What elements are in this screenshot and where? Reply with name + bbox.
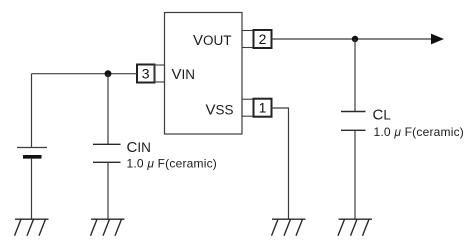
svg-text:3: 3 bbox=[142, 66, 150, 82]
pin number 2 bbox=[254, 30, 272, 48]
pin label VIN bbox=[172, 66, 196, 83]
op-amp U1 (regulator IC body) bbox=[165, 13, 243, 135]
svg-text:1.0 μ F(ceramic): 1.0 μ F(ceramic) bbox=[374, 125, 464, 139]
svg-text:VOUT: VOUT bbox=[193, 32, 232, 49]
capacitor CL bbox=[341, 112, 366, 131]
capacitor CIN bbox=[93, 144, 121, 162]
svg-text:VIN: VIN bbox=[172, 66, 196, 83]
svg-text:CL: CL bbox=[373, 107, 392, 124]
label CL bbox=[373, 107, 392, 124]
wire CIN top bbox=[107, 74, 109, 145]
wire CIN bottom bbox=[107, 162, 109, 219]
pin 3 stub bbox=[155, 65, 165, 82]
pin 2 stub bbox=[242, 31, 254, 48]
svg-text:1: 1 bbox=[259, 100, 267, 116]
pin 1 stub bbox=[242, 99, 254, 116]
pin number 1 bbox=[254, 99, 272, 117]
wire VOUT net (pin 2 to arrow) bbox=[272, 38, 433, 40]
pin label VSS bbox=[206, 102, 234, 119]
ground (CIN) bbox=[91, 219, 125, 236]
node junction VIN/CIN bbox=[105, 70, 112, 77]
wire battery positive bbox=[31, 74, 33, 148]
label CIN bbox=[127, 139, 151, 156]
ground (CL) bbox=[338, 219, 372, 236]
wire CL bottom bbox=[354, 130, 356, 219]
wire VIN net (battery to pin 3) bbox=[32, 73, 138, 75]
wire CL top bbox=[354, 39, 356, 112]
battery BT1 bbox=[17, 148, 47, 157]
svg-text:VSS: VSS bbox=[206, 102, 234, 119]
pin number 3 bbox=[137, 65, 155, 83]
svg-text:1.0 μ F(ceramic): 1.0 μ F(ceramic) bbox=[127, 157, 217, 171]
ground (VSS) bbox=[272, 219, 306, 236]
value label CL 1.0uF bbox=[374, 125, 464, 139]
value label CIN 1.0uF bbox=[127, 157, 217, 171]
pin label VOUT bbox=[193, 32, 232, 49]
arrow VOUT output bbox=[431, 34, 444, 45]
svg-text:2: 2 bbox=[259, 31, 267, 47]
wire VSS net (pin 1 to ground) bbox=[272, 108, 289, 219]
wire battery negative bbox=[31, 158, 33, 219]
svg-text:CIN: CIN bbox=[127, 139, 151, 156]
ground (battery) bbox=[15, 219, 49, 236]
node junction VOUT/CL bbox=[352, 36, 358, 42]
